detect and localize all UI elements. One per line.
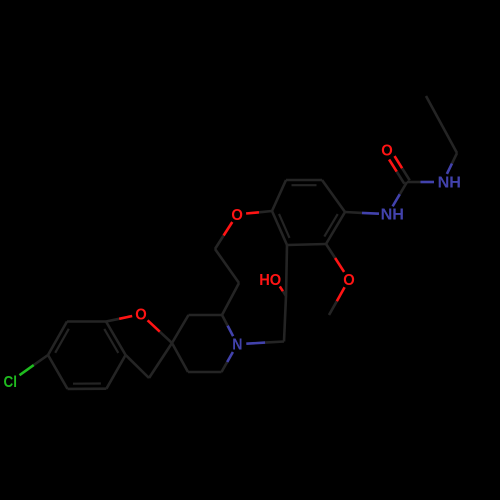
bond Q2-Na bbox=[265, 342, 284, 343]
svg-text:NH: NH bbox=[381, 207, 404, 224]
bond C5-C4 bbox=[68, 387, 107, 390]
svg-text:O: O bbox=[343, 272, 355, 289]
bond C1-Nr bbox=[407, 181, 421, 184]
bond C6-C5 bbox=[48, 355, 68, 389]
bond Cc-Cd bbox=[188, 371, 222, 374]
bond Or-Me2 bbox=[337, 287, 345, 301]
bond Na-Ca bbox=[228, 326, 234, 337]
bond C2-C3 bbox=[149, 343, 172, 378]
aromatic inner line V6-V1 bbox=[279, 214, 290, 238]
bond Cb1-Me1 bbox=[426, 96, 457, 153]
bond Of-C2 bbox=[148, 320, 160, 331]
aromatic inner line C7-C6 bbox=[55, 329, 69, 353]
bond C4-C3a bbox=[106, 355, 125, 389]
bond Of-C7a bbox=[119, 316, 132, 319]
bond C3-C3a bbox=[126, 355, 149, 378]
svg-text:O: O bbox=[381, 143, 393, 160]
bond V3-V4 bbox=[322, 180, 345, 212]
aromatic inner line V4-V5 bbox=[324, 214, 337, 237]
bond V6-Q1 bbox=[286, 245, 287, 296]
aromatic inner line C3a-C7a bbox=[104, 329, 118, 353]
svg-text:O: O bbox=[135, 307, 147, 324]
bond V6-V1 bbox=[272, 211, 287, 245]
bond Q1-Q2 bbox=[284, 296, 286, 342]
bond P2-P1 bbox=[215, 249, 239, 283]
bond V4-V5 bbox=[326, 212, 345, 244]
svg-text:Cl: Cl bbox=[3, 374, 17, 391]
bond Nr-Cb1 bbox=[447, 163, 452, 174]
bond C7a-C7 bbox=[67, 320, 106, 323]
bond Nl-C1 bbox=[393, 194, 400, 206]
svg-text:O: O bbox=[231, 207, 243, 224]
aromatic inner line V2-V3 bbox=[292, 184, 317, 186]
aromatic inner line C5-C4 bbox=[73, 382, 101, 384]
svg-text:N: N bbox=[232, 337, 242, 354]
bond V4-Nl bbox=[345, 211, 362, 214]
svg-text:HO: HO bbox=[259, 272, 281, 289]
bond Q1-HO bbox=[283, 291, 286, 296]
bond Ol-V1 bbox=[246, 212, 259, 213]
bond C7-C6 bbox=[48, 322, 67, 356]
bond C2-Cc bbox=[172, 343, 188, 372]
bond Ca-Cb bbox=[189, 314, 223, 317]
bond C3a-C7a bbox=[106, 322, 126, 356]
bond V5-V6 bbox=[287, 244, 326, 245]
bond P1-Ol bbox=[215, 236, 224, 250]
bond V1-V2 bbox=[272, 180, 286, 211]
bond Ca-P2 bbox=[222, 283, 239, 315]
bond V5-Or bbox=[326, 244, 335, 258]
bond V2-V3 bbox=[286, 179, 322, 182]
bond C6-CL bbox=[34, 355, 48, 365]
bond Cb-C2 bbox=[172, 315, 189, 343]
bond Cd-Na bbox=[222, 362, 228, 372]
double bond C1=Oc bbox=[402, 168, 410, 180]
svg-text:NH: NH bbox=[438, 174, 461, 191]
